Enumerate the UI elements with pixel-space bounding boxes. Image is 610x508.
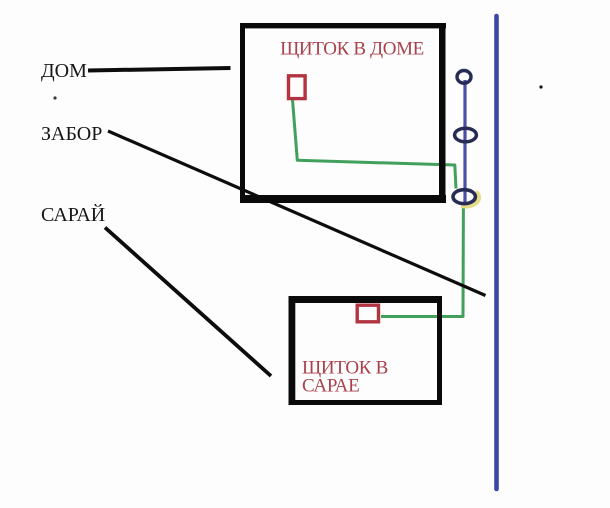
- wire from insulator 3 down to shed panel: [381, 205, 463, 317]
- insulator 1: [457, 71, 471, 84]
- messenger line between insulators: [463, 80, 466, 204]
- insulator 3: [453, 190, 475, 204]
- panel box in shed (щиток в сарае): [357, 305, 378, 322]
- fence line: [494, 16, 499, 489]
- leader line from САРАЙ to shed: [105, 228, 271, 377]
- svg-text:ЗАБОР: ЗАБОР: [41, 123, 102, 145]
- insulator 2: [455, 128, 477, 142]
- leader line from ДОМ to house: [88, 68, 231, 71]
- panel box in house (щиток в доме): [289, 76, 306, 99]
- stray dot under ДОМ: [53, 96, 56, 99]
- leader line from ЗАБОР to fence: [108, 131, 486, 296]
- svg-text:САРАЙ: САРАЙ: [41, 203, 105, 226]
- svg-text:САРАЕ: САРАЕ: [302, 376, 359, 397]
- svg-text:ЩИТОК В ДОМЕ: ЩИТОК В ДОМЕ: [280, 39, 424, 60]
- yellow highlight behind insulator 3: [461, 192, 479, 206]
- stray dot right of fence: [539, 85, 542, 88]
- wire from house panel to insulator 3: [293, 100, 457, 189]
- shed outline: [289, 296, 443, 405]
- svg-text:ДОМ: ДОМ: [41, 60, 87, 82]
- house outline: [240, 23, 446, 203]
